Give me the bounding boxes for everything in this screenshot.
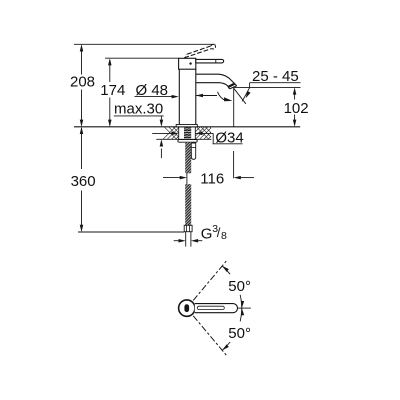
dimension 116 <box>163 151 254 184</box>
dashed swing line upper <box>193 261 226 301</box>
svg-text:360: 360 <box>71 173 96 190</box>
hole edges <box>178 127 180 139</box>
dashed swing line lower <box>193 316 226 356</box>
faucet body <box>178 69 180 124</box>
spout outlet face <box>230 86 237 89</box>
arrow 360 bottom <box>80 225 84 232</box>
supply rod / braided hose upper <box>185 142 191 173</box>
svg-text:max.30: max.30 <box>114 100 163 117</box>
washer under counter <box>178 140 197 143</box>
base flange <box>176 125 197 127</box>
outlet vertical ref line <box>233 88 235 127</box>
arrow Ø34 left <box>171 132 178 136</box>
arrow 116 left <box>180 176 187 180</box>
lever handle raised (dashed) <box>184 44 215 57</box>
arrow arc upper at line <box>240 301 244 308</box>
svg-text:Ø34: Ø34 <box>215 129 243 146</box>
label Ø 48 leader <box>135 96 218 97</box>
water stream right line <box>234 88 246 104</box>
arrow 102 bottom <box>293 120 297 127</box>
svg-text:102: 102 <box>284 100 309 117</box>
threaded shank <box>184 127 191 140</box>
arrow max30 up <box>160 139 164 146</box>
svg-text:116: 116 <box>200 170 224 187</box>
25-45 leader arrow <box>242 88 250 102</box>
top view: lever <box>195 304 238 313</box>
ref line head top (174) <box>105 57 179 59</box>
arrow G38 left <box>179 239 186 243</box>
label max.30 leader <box>114 116 164 158</box>
supply end ref line (360 bottom) <box>78 231 184 233</box>
arrow 174 bottom <box>108 120 112 127</box>
svg-text:Ø 48: Ø 48 <box>136 82 169 99</box>
arrow 102 top <box>293 87 297 94</box>
arrow 208 bottom <box>80 120 84 127</box>
top view: centerline right <box>238 307 251 309</box>
arrow arc lower at line <box>240 308 244 315</box>
50 deg labels with white mask <box>228 278 251 342</box>
dimension 208 <box>81 46 83 126</box>
arc upper <box>222 266 242 308</box>
hose hex fitting <box>184 225 192 231</box>
water stream swivel arc arrow <box>218 92 233 103</box>
25-45 lines <box>234 83 301 88</box>
svg-text:G: G <box>201 226 213 243</box>
faucet head (cartridge box) <box>179 58 196 69</box>
top view: lever slot <box>197 306 224 309</box>
counter section bottom line <box>156 138 211 140</box>
arrowheads <box>80 44 297 242</box>
Ø34 dimension arrows <box>152 133 242 143</box>
top view: body circle <box>179 300 195 316</box>
spout <box>196 74 237 86</box>
dimension 102 <box>294 94 296 121</box>
counter hatch left <box>163 127 178 139</box>
arrow Ø48 right <box>196 94 203 98</box>
arrow Ø34 right <box>195 132 202 136</box>
svg-text:50°: 50° <box>228 278 251 295</box>
svg-text:208: 208 <box>70 74 95 91</box>
svg-text:174: 174 <box>100 82 125 99</box>
G3/8 tube arrows <box>174 240 203 242</box>
arrow arc upper at dashed <box>221 265 229 272</box>
lever pivot dot <box>189 62 191 64</box>
arc lower <box>222 308 242 350</box>
connection tube <box>185 232 187 247</box>
top view group <box>179 261 251 356</box>
dimension 360 <box>81 128 83 231</box>
dimension 174 <box>109 60 111 126</box>
side bolt <box>191 143 196 159</box>
arrow 116 right <box>234 176 241 180</box>
arrow G38 right <box>191 239 198 243</box>
svg-text:25 - 45: 25 - 45 <box>252 68 299 85</box>
arrow Ø48 left <box>172 95 179 99</box>
braided hose lower <box>185 184 191 225</box>
svg-text:50°: 50° <box>228 325 251 342</box>
counter surface line <box>74 126 300 128</box>
lever handle horizontal <box>196 59 224 63</box>
arrow 174 top <box>108 58 112 65</box>
arrow max30 down <box>160 120 164 127</box>
ref line top (208 max height) <box>74 43 215 45</box>
counter hatch right <box>196 127 211 139</box>
svg-text:8: 8 <box>221 230 227 242</box>
arrow 360 top <box>80 127 84 134</box>
arrow 208 top <box>80 44 84 51</box>
top view: handle slot dark <box>184 304 189 312</box>
arrow arc lower at dashed <box>221 344 229 351</box>
main group: side view <box>74 44 301 246</box>
